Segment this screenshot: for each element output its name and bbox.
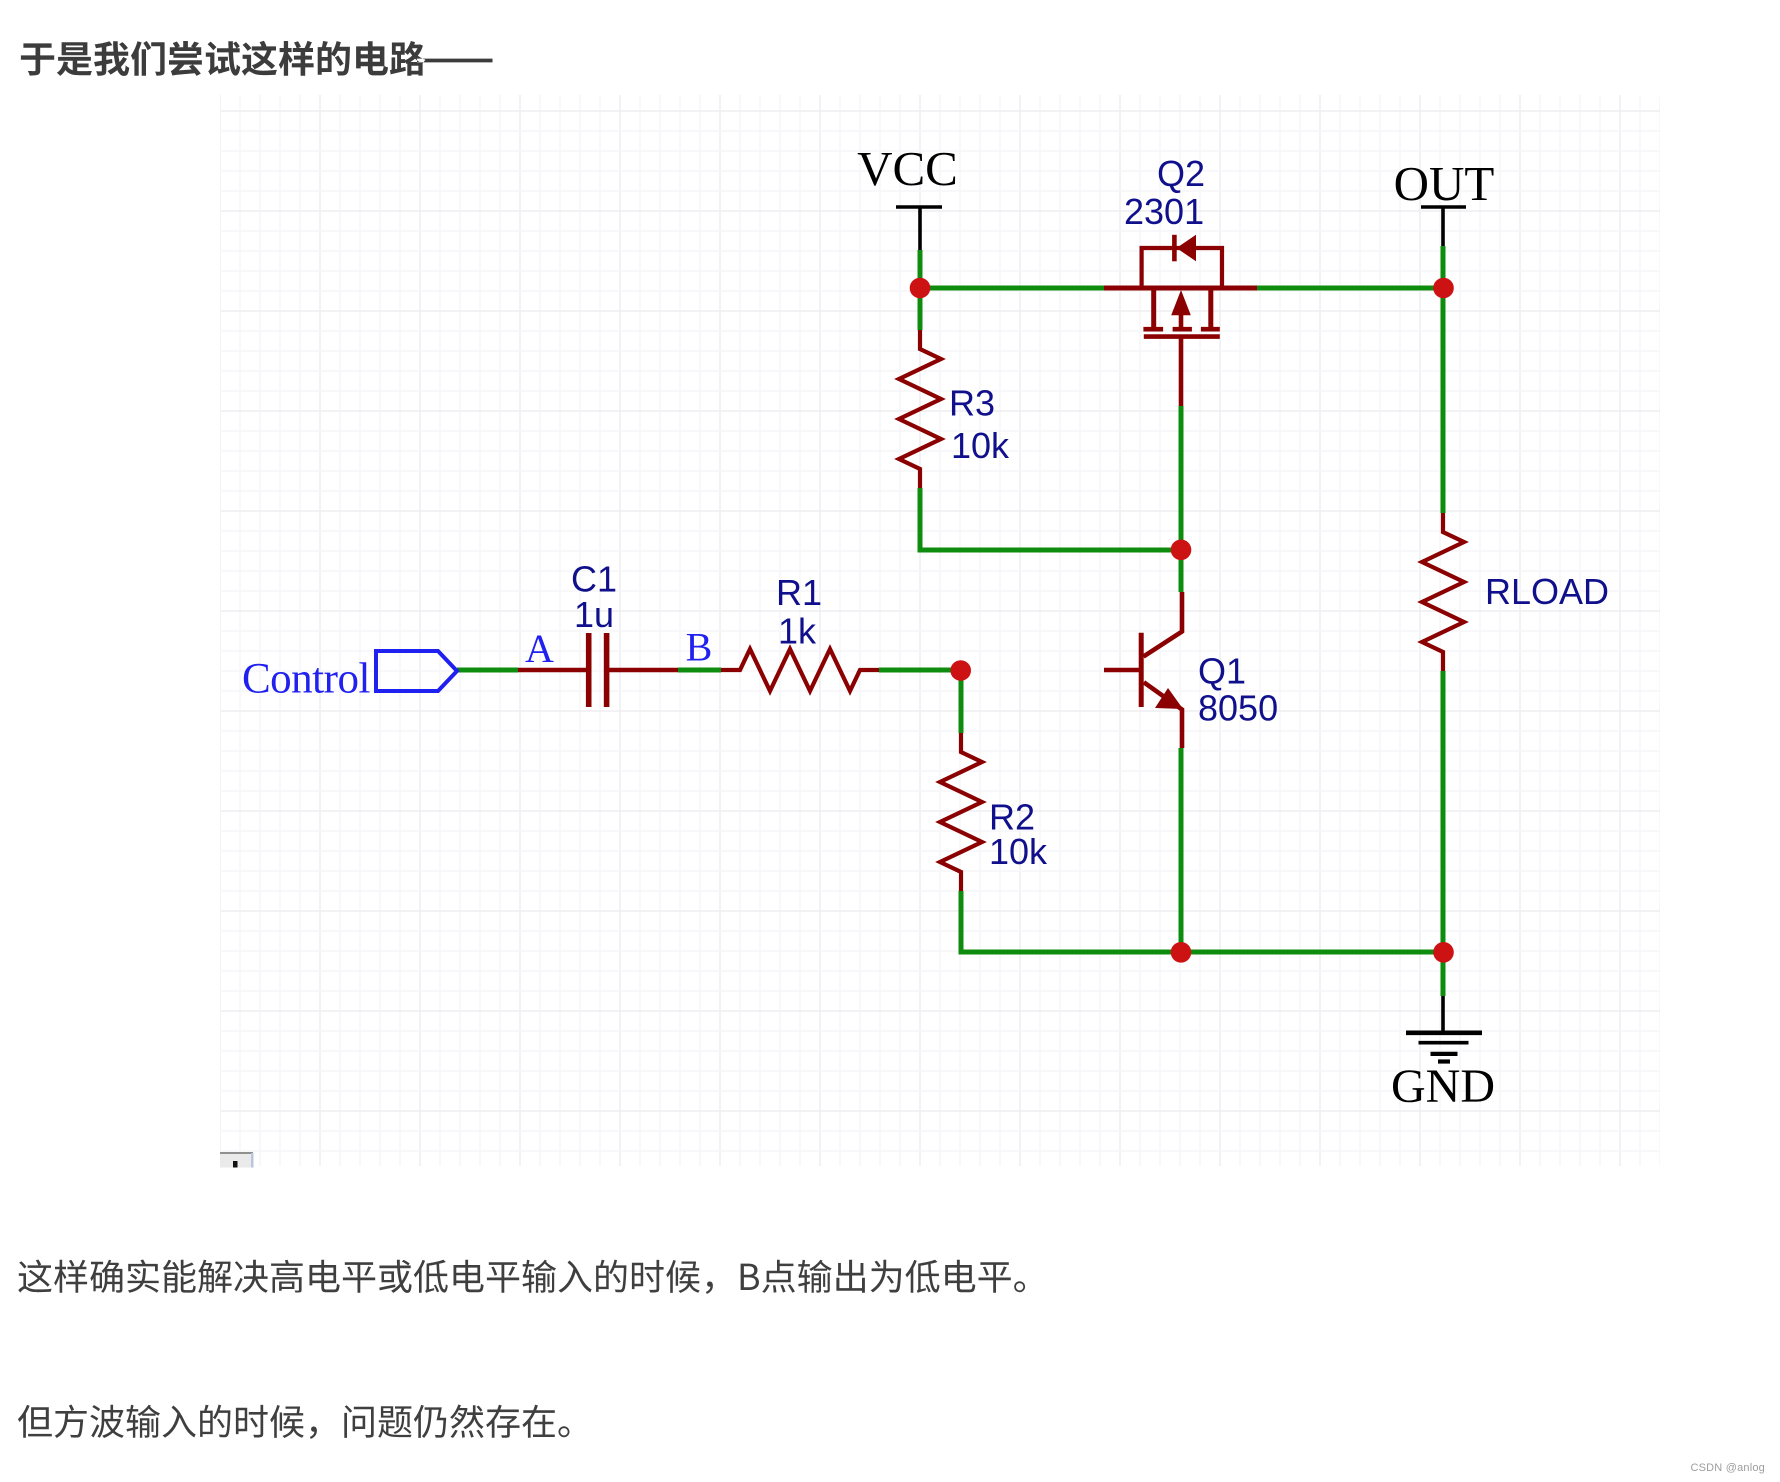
svg-text:Q2: Q2: [1157, 153, 1205, 194]
Q2 gate lead: [1179, 338, 1184, 406]
Q1 base bar: [1139, 633, 1144, 707]
svg-text:CSDN @anlog: CSDN @anlog: [1690, 1462, 1765, 1474]
svg-text:VCC: VCC: [857, 141, 958, 196]
svg-text:R1: R1: [776, 572, 822, 613]
power flag VCC: [896, 207, 942, 250]
capacitor C1 plates: [586, 633, 592, 707]
svg-text:OUT: OUT: [1394, 156, 1495, 211]
wire R2 bottom to bottom rail corner: [959, 891, 964, 955]
svg-text:8050: 8050: [1198, 688, 1278, 729]
svg-text:1k: 1k: [778, 611, 817, 652]
capacitor C1 leads: [518, 668, 586, 673]
svg-text:GND: GND: [1391, 1060, 1495, 1113]
cropped UI fragment bottom-left of canvas: [220, 1152, 254, 1168]
wire R1 to base node: [879, 668, 961, 673]
junction emitter/bottom node: [1171, 942, 1192, 963]
Q2 gate plate: [1144, 334, 1220, 339]
svg-text:A: A: [525, 626, 554, 671]
Q2 bulk arrow: [1171, 290, 1191, 315]
wire top rail right (Q2 pin to OUT node): [1257, 286, 1443, 291]
wire Q1 emitter down to bottom rail: [1179, 748, 1184, 952]
junction base node: [950, 660, 971, 681]
Q2 diode triangle: [1177, 235, 1197, 261]
ground GND: [1406, 996, 1482, 1062]
junction gate node: [1171, 540, 1192, 561]
Q2 channel segments: [1143, 327, 1163, 332]
Q1 collector (diagonal + pin up): [1143, 592, 1182, 657]
wire OUT node down to RLOAD: [1441, 288, 1446, 513]
component label texts (sans navy): [571, 153, 1609, 872]
svg-text:RLOAD: RLOAD: [1485, 571, 1609, 612]
wire gate row horizontal: [918, 548, 1182, 553]
paragraph 2: [18, 1405, 570, 1439]
Q2 right contact leg: [1208, 288, 1213, 327]
wire top rail left (VCC node to Q2 pin): [920, 286, 1104, 291]
junction VCC node: [910, 278, 931, 299]
resistor R3 10k vertical: [899, 330, 941, 488]
wire OUT stem lower: [1441, 246, 1446, 288]
wire VCC stem lower: [918, 250, 923, 288]
transistor Q1 base pin: [1104, 668, 1141, 673]
svg-text:B: B: [686, 624, 713, 669]
resistor R2 10k vertical: [940, 733, 982, 891]
net label texts (serif): [242, 141, 1495, 1113]
Q2 diode cathode bar: [1172, 235, 1177, 261]
power flag OUT: [1421, 207, 1466, 246]
Q1 emitter (diagonal + pin down): [1144, 682, 1182, 748]
port Control (blue pentagon): [376, 651, 457, 691]
svg-text:10k: 10k: [951, 425, 1010, 466]
resistor RLOAD vertical: [1422, 513, 1464, 671]
Q2 source-drain rail (pins): [1104, 286, 1257, 291]
Q1 emitter arrow: [1155, 688, 1183, 709]
wire bottom rail: [959, 950, 1444, 955]
junction dots (red): [910, 278, 1454, 963]
Q2 left contact leg: [1151, 288, 1156, 327]
power symbols (black): [896, 207, 1482, 1062]
wire R3 bottom to corner: [918, 488, 923, 553]
wire node B (C1 to R1): [678, 668, 721, 673]
wire VCC node to R3 top: [918, 288, 923, 330]
wire control port to C1: [457, 668, 518, 673]
svg-text:R3: R3: [949, 383, 995, 424]
paragraph 1: [18, 1260, 1025, 1294]
heading 于是我们尝试这样的电路——: [21, 41, 493, 76]
junction GND node: [1433, 942, 1454, 963]
wire base node down to R2: [959, 670, 964, 733]
wire GND stem upper: [1441, 952, 1446, 996]
schematic canvas grid: [220, 95, 1660, 1166]
transistor Q2 body diode loop: [1142, 248, 1222, 287]
svg-text:10k: 10k: [989, 831, 1048, 872]
wire RLOAD bottom to bottom rail: [1441, 671, 1446, 952]
junction OUT node: [1433, 278, 1454, 299]
resistor R1 1k horizontal: [721, 649, 879, 691]
svg-text:2301: 2301: [1124, 191, 1204, 232]
svg-text:Control: Control: [242, 656, 370, 703]
components (dark red): [518, 235, 1464, 891]
svg-text:Q1: Q1: [1198, 651, 1246, 692]
svg-text:1u: 1u: [574, 594, 614, 635]
wire Q2 gate to node A2 and down to Q1 collector: [1179, 406, 1184, 592]
wires (green): [457, 246, 1443, 996]
